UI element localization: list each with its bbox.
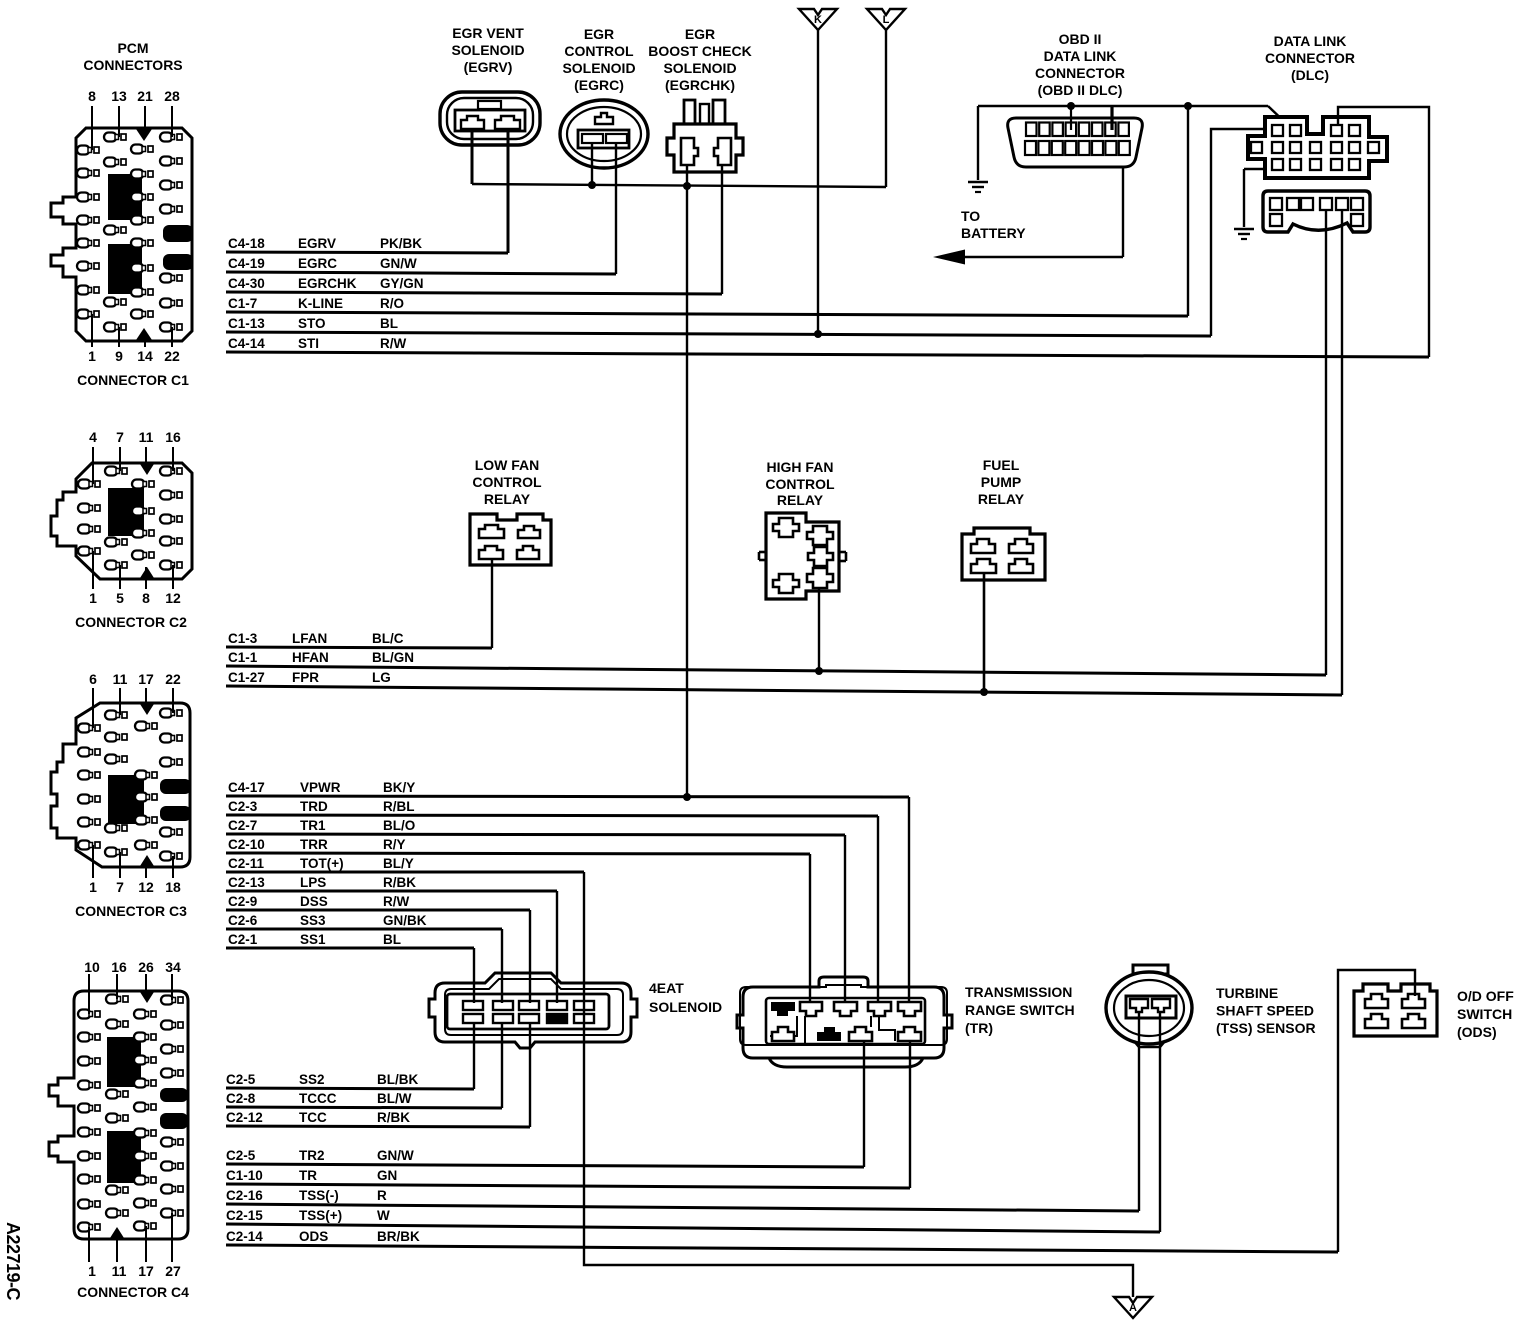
svg-text:BL/O: BL/O <box>383 818 415 833</box>
svg-text:1: 1 <box>88 1263 96 1279</box>
svg-text:GN/BK: GN/BK <box>383 913 427 928</box>
svg-text:STO: STO <box>298 316 326 331</box>
wire TR2 (C2-5) GN/W <box>226 1148 864 1167</box>
wire ODS to O/D switch <box>1338 970 1415 1252</box>
svg-text:W: W <box>377 1208 390 1223</box>
svg-text:(TSS) SENSOR: (TSS) SENSOR <box>1216 1020 1316 1036</box>
wire K-LINE riser <box>1187 106 1189 316</box>
wire HFAN from DLC pin <box>1325 210 1327 675</box>
wire DSS (C2-9) R/W <box>226 894 530 910</box>
junction K/STO <box>814 330 822 338</box>
PCM connectors heading <box>83 40 182 73</box>
svg-text:GN/W: GN/W <box>377 1148 414 1163</box>
solenoid EGRC connector <box>560 26 648 168</box>
svg-text:22: 22 <box>164 348 180 364</box>
svg-text:SOLENOID: SOLENOID <box>649 999 722 1015</box>
wire EGRC pin to C4-19 row <box>615 143 617 274</box>
wire TCCC (C2-8) BL/W <box>226 1091 502 1108</box>
wire VPWR (C4-17) BK/Y <box>226 780 909 797</box>
O/D off switch connector <box>1354 984 1514 1040</box>
svg-text:11: 11 <box>113 671 128 687</box>
svg-text:11: 11 <box>139 429 154 445</box>
svg-text:GY/GN: GY/GN <box>380 276 424 291</box>
wire EGRCHK pin to VPWR row (C4-17) <box>686 165 688 797</box>
junction EGRCHK/VPWR feed <box>683 182 691 190</box>
relay: fuel pump <box>962 457 1045 580</box>
svg-text:R/Y: R/Y <box>383 837 406 852</box>
svg-text:RELAY: RELAY <box>777 492 824 508</box>
svg-text:CONNECTOR C3: CONNECTOR C3 <box>75 903 187 919</box>
svg-text:14: 14 <box>137 348 153 364</box>
svg-text:PUMP: PUMP <box>981 474 1021 490</box>
svg-text:ODS: ODS <box>299 1229 328 1244</box>
wire TCC (C2-12) R/BK <box>226 1110 530 1127</box>
wire EGRCHK pin to C4-30 row <box>721 165 723 294</box>
wire SS3 (C2-6) GN/BK <box>226 913 502 929</box>
svg-text:12: 12 <box>138 879 154 895</box>
svg-text:C2-6: C2-6 <box>228 913 258 928</box>
relay: high fan control <box>759 459 846 599</box>
svg-text:C2-11: C2-11 <box>228 856 265 871</box>
wire EGRV (C4-18) PK/BK <box>226 236 508 253</box>
wire TRD riser to TR <box>877 816 879 1003</box>
svg-text:BL/GN: BL/GN <box>372 650 414 665</box>
PCM connector C1 <box>51 88 193 388</box>
wire SS1 (C2-1) BL <box>226 932 474 948</box>
svg-text:HIGH FAN: HIGH FAN <box>767 459 834 475</box>
svg-text:HFAN: HFAN <box>292 650 329 665</box>
wire TSS(+) (C2-15) W <box>226 1208 1160 1232</box>
svg-text:TR2: TR2 <box>299 1148 325 1163</box>
svg-text:34: 34 <box>165 959 181 975</box>
connector DLC upper <box>1248 33 1387 178</box>
PCM connector C4 <box>49 959 189 1300</box>
svg-text:BL/Y: BL/Y <box>383 856 414 871</box>
svg-text:SS1: SS1 <box>300 932 326 947</box>
svg-text:FPR: FPR <box>292 670 319 685</box>
svg-text:A: A <box>1129 1302 1137 1314</box>
svg-text:C2-9: C2-9 <box>228 894 257 909</box>
svg-text:C2-15: C2-15 <box>226 1208 263 1223</box>
svg-text:EGRV: EGRV <box>298 236 336 251</box>
svg-text:C2-10: C2-10 <box>228 837 265 852</box>
wire TR2 drop from TR <box>863 1041 865 1167</box>
svg-text:C2-1: C2-1 <box>228 932 258 947</box>
svg-text:CONNECTOR C2: CONNECTOR C2 <box>75 614 187 630</box>
svg-text:C1-1: C1-1 <box>228 650 258 665</box>
svg-text:(OBD II DLC): (OBD II DLC) <box>1038 82 1123 98</box>
wire TRR riser to TR <box>809 854 811 1003</box>
junction OBD II DLC pin feed <box>1067 102 1075 110</box>
wire FPR from DLC pin <box>1341 210 1343 695</box>
svg-text:BL/C: BL/C <box>372 631 404 646</box>
svg-text:13: 13 <box>111 88 127 104</box>
wire LPS (C2-13) R/BK <box>226 875 557 891</box>
svg-text:16: 16 <box>165 429 181 445</box>
svg-text:C2-13: C2-13 <box>228 875 265 890</box>
wire DSS riser <box>529 910 531 1003</box>
svg-text:STI: STI <box>298 336 319 351</box>
svg-text:TSS(-): TSS(-) <box>299 1188 339 1203</box>
wire TR drop from TR <box>909 1041 911 1188</box>
svg-text:EGRC: EGRC <box>298 256 337 271</box>
svg-text:CONTROL: CONTROL <box>472 474 542 490</box>
svg-text:LG: LG <box>372 670 391 685</box>
svg-text:21: 21 <box>137 88 153 104</box>
svg-text:EGR VENT: EGR VENT <box>452 25 524 41</box>
wire high fan relay to HFAN row (C1-1) <box>818 588 820 671</box>
svg-text:C4-30: C4-30 <box>228 276 265 291</box>
junction EGRC/VPWR feed <box>588 181 596 189</box>
wire STO riser to DLC <box>1211 129 1266 336</box>
junction EGRCHK feed / VPWR row <box>683 793 691 801</box>
svg-text:17: 17 <box>138 671 154 687</box>
wire K-LINE (C1-7) R/O <box>226 296 1188 316</box>
wire TR1 riser to TR <box>844 835 846 1003</box>
svg-text:TR: TR <box>299 1168 317 1183</box>
wire SS1 riser <box>473 948 475 1003</box>
wire LPS riser <box>556 891 558 1003</box>
svg-text:28: 28 <box>164 88 180 104</box>
svg-text:SS3: SS3 <box>300 913 326 928</box>
wire TCCC drop <box>501 1023 503 1108</box>
wire TSS(+) <box>1159 1012 1161 1232</box>
svg-text:TRANSMISSION: TRANSMISSION <box>965 984 1072 1000</box>
wire TSS(-) <box>1138 1012 1140 1211</box>
svg-text:RELAY: RELAY <box>978 491 1025 507</box>
svg-text:8: 8 <box>142 590 150 606</box>
PCM connector C3 <box>51 671 191 919</box>
figure number A22719-C <box>3 1222 23 1301</box>
wire TR (C1-10) GN <box>226 1168 910 1188</box>
svg-text:12: 12 <box>165 590 181 606</box>
svg-text:TOT(+): TOT(+) <box>300 856 344 871</box>
svg-text:BL: BL <box>383 932 401 947</box>
svg-text:CONTROL: CONTROL <box>564 43 634 59</box>
svg-text:C2-14: C2-14 <box>226 1229 263 1244</box>
svg-text:7: 7 <box>116 879 124 895</box>
svg-text:C4-14: C4-14 <box>228 336 265 351</box>
svg-text:BR/BK: BR/BK <box>377 1229 420 1244</box>
wire TCC drop <box>529 1023 531 1127</box>
svg-text:C1-7: C1-7 <box>228 296 257 311</box>
svg-text:RANGE SWITCH: RANGE SWITCH <box>965 1002 1075 1018</box>
svg-text:16: 16 <box>111 959 127 975</box>
VPWR feed wire to solenoids <box>472 184 886 187</box>
wire OBD II DLC feed line <box>978 105 1268 107</box>
svg-text:BL: BL <box>380 316 398 331</box>
svg-text:CONNECTOR C1: CONNECTOR C1 <box>77 372 189 388</box>
wire TSS(-) (C2-16) R <box>226 1188 1139 1211</box>
solenoid EGRV connector <box>440 25 540 145</box>
svg-text:A22719-C: A22719-C <box>3 1222 23 1301</box>
svg-text:CONNECTOR C4: CONNECTOR C4 <box>77 1284 189 1300</box>
wire EGRC (C4-19) GN/W <box>226 256 616 274</box>
PCM connector C2 <box>51 429 192 630</box>
svg-text:C2-5: C2-5 <box>226 1072 256 1087</box>
wire EGRV pin to VPWR feed <box>471 131 474 184</box>
svg-text:CONTROL: CONTROL <box>765 476 835 492</box>
svg-text:C2-16: C2-16 <box>226 1188 263 1203</box>
svg-text:RELAY: RELAY <box>484 491 531 507</box>
svg-text:4EAT: 4EAT <box>649 980 684 996</box>
svg-text:5: 5 <box>116 590 124 606</box>
svg-text:1: 1 <box>89 590 97 606</box>
svg-text:C4-18: C4-18 <box>228 236 265 251</box>
svg-text:R: R <box>377 1188 387 1203</box>
TO BATTERY arrow <box>933 167 1123 265</box>
svg-text:CONNECTORS: CONNECTORS <box>83 57 182 73</box>
svg-text:6: 6 <box>89 671 97 687</box>
svg-text:C4-19: C4-19 <box>228 256 265 271</box>
wire ODS (C2-14) BR/BK <box>226 1229 1338 1252</box>
svg-text:(ODS): (ODS) <box>1457 1024 1497 1040</box>
node L <box>867 9 905 30</box>
svg-text:C1-3: C1-3 <box>228 631 258 646</box>
svg-text:R/BK: R/BK <box>383 875 416 890</box>
connector OBD II DLC <box>1008 31 1143 167</box>
svg-text:OBD II: OBD II <box>1059 31 1102 47</box>
svg-text:TCC: TCC <box>299 1110 327 1125</box>
svg-text:GN: GN <box>377 1168 397 1183</box>
wire EGRC pin to VPWR feed <box>591 143 593 185</box>
svg-text:SOLENOID: SOLENOID <box>562 60 635 76</box>
ground at OBD II DLC <box>977 106 979 180</box>
wire TR1 (C2-7) BL/O <box>226 818 845 835</box>
wire LFAN (C1-3) BL/C <box>226 631 492 648</box>
connector DLC lower <box>1263 191 1370 232</box>
svg-text:9: 9 <box>115 348 123 364</box>
svg-text:DATA LINK: DATA LINK <box>1044 48 1117 64</box>
node K <box>799 9 837 30</box>
solenoid EGRCHK connector <box>648 26 751 172</box>
wire node L to VPWR feed <box>885 30 887 187</box>
4EAT solenoid connector <box>429 973 722 1048</box>
wire node K to STO row <box>817 30 819 334</box>
svg-text:TRR: TRR <box>300 837 328 852</box>
svg-text:18: 18 <box>165 879 181 895</box>
svg-text:TCCC: TCCC <box>299 1091 337 1106</box>
svg-text:R/O: R/O <box>380 296 404 311</box>
wire SS2 (C2-5) BL/BK <box>226 1072 474 1089</box>
svg-text:LFAN: LFAN <box>292 631 327 646</box>
svg-text:BL/BK: BL/BK <box>377 1072 418 1087</box>
junction high fan / HFAN <box>815 667 823 675</box>
svg-text:1: 1 <box>88 348 96 364</box>
svg-text:TR1: TR1 <box>300 818 326 833</box>
svg-text:8: 8 <box>88 88 96 104</box>
svg-text:27: 27 <box>165 1263 181 1279</box>
svg-text:(TR): (TR) <box>965 1020 993 1036</box>
svg-text:C1-27: C1-27 <box>228 670 265 685</box>
svg-text:SHAFT SPEED: SHAFT SPEED <box>1216 1003 1314 1019</box>
svg-text:22: 22 <box>165 671 181 687</box>
svg-text:L: L <box>883 14 890 26</box>
transmission range switch connector <box>737 977 1075 1067</box>
svg-text:SOLENOID: SOLENOID <box>663 60 736 76</box>
svg-text:C2-5: C2-5 <box>226 1148 256 1163</box>
svg-text:26: 26 <box>138 959 154 975</box>
svg-text:LPS: LPS <box>300 875 326 890</box>
svg-text:FUEL: FUEL <box>983 457 1020 473</box>
wire diagonal to DLC pin <box>1268 106 1291 128</box>
wire low fan relay to LFAN row (C1-3) <box>491 559 493 648</box>
wire STI (C4-14) R/W <box>226 336 1429 357</box>
svg-text:(EGRV): (EGRV) <box>464 59 513 75</box>
svg-text:C2-7: C2-7 <box>228 818 257 833</box>
relay: low fan control <box>470 457 551 565</box>
wire SS3 riser <box>501 929 503 1003</box>
ground at DLC <box>1244 168 1265 170</box>
svg-text:CONNECTOR: CONNECTOR <box>1035 65 1125 81</box>
svg-text:PCM: PCM <box>117 40 148 56</box>
wire HFAN (C1-1) BL/GN <box>226 650 1326 675</box>
svg-text:DATA LINK: DATA LINK <box>1274 33 1347 49</box>
wire EGRCHK (C4-30) GY/GN <box>226 276 722 294</box>
wire TOT(+) (C2-11) BL/Y <box>226 856 584 872</box>
wire TRR (C2-10) R/Y <box>226 837 810 854</box>
junction fuel pump / FPR <box>980 688 988 696</box>
svg-text:10: 10 <box>84 959 100 975</box>
svg-text:K-LINE: K-LINE <box>298 296 343 311</box>
svg-text:BK/Y: BK/Y <box>383 780 415 795</box>
svg-text:DSS: DSS <box>300 894 328 909</box>
svg-text:SS2: SS2 <box>299 1072 325 1087</box>
turbine shaft speed sensor connector <box>1106 965 1316 1047</box>
svg-text:TRD: TRD <box>300 799 328 814</box>
svg-text:C2-8: C2-8 <box>226 1091 256 1106</box>
wire VPWR riser to TR <box>908 797 910 1003</box>
wire TRD (C2-3) R/BL <box>226 799 878 816</box>
svg-text:GN/W: GN/W <box>380 256 417 271</box>
wire TOT(+) riser and A branch <box>584 872 1133 1297</box>
svg-text:CONNECTOR: CONNECTOR <box>1265 50 1355 66</box>
svg-text:C2-3: C2-3 <box>228 799 258 814</box>
svg-text:R/BK: R/BK <box>377 1110 410 1125</box>
svg-text:(EGRC): (EGRC) <box>574 77 624 93</box>
svg-text:C2-12: C2-12 <box>226 1110 263 1125</box>
svg-text:BATTERY: BATTERY <box>961 225 1026 241</box>
svg-text:BL/W: BL/W <box>377 1091 412 1106</box>
junction K-LINE / OBD feed <box>1184 102 1192 110</box>
node A <box>1114 1297 1152 1318</box>
svg-text:BOOST CHECK: BOOST CHECK <box>648 43 751 59</box>
svg-text:K: K <box>814 14 822 26</box>
svg-text:C1-10: C1-10 <box>226 1168 263 1183</box>
svg-text:SOLENOID: SOLENOID <box>451 42 524 58</box>
svg-text:C1-13: C1-13 <box>228 316 265 331</box>
svg-text:(EGRCHK): (EGRCHK) <box>665 77 735 93</box>
svg-text:R/BL: R/BL <box>383 799 415 814</box>
svg-text:TSS(+): TSS(+) <box>299 1208 342 1223</box>
svg-text:17: 17 <box>138 1263 154 1279</box>
wire FPR (C1-27) LG <box>226 670 1342 695</box>
svg-text:R/W: R/W <box>383 894 410 909</box>
svg-text:1: 1 <box>89 879 97 895</box>
svg-text:EGR: EGR <box>584 26 614 42</box>
wire SS2 drop <box>473 1023 475 1089</box>
svg-text:O/D OFF: O/D OFF <box>1457 988 1514 1004</box>
svg-text:4: 4 <box>89 429 97 445</box>
svg-text:11: 11 <box>112 1263 127 1279</box>
svg-text:TO: TO <box>961 208 980 224</box>
svg-text:EGRCHK: EGRCHK <box>298 276 357 291</box>
svg-text:TURBINE: TURBINE <box>1216 985 1278 1001</box>
svg-text:VPWR: VPWR <box>300 780 341 795</box>
svg-text:R/W: R/W <box>380 336 407 351</box>
svg-text:(DLC): (DLC) <box>1291 67 1329 83</box>
wire fuel pump relay to FPR row (C1-27) <box>983 573 986 692</box>
wire EGRV pin to C4-18 row <box>507 131 510 253</box>
svg-text:LOW FAN: LOW FAN <box>475 457 540 473</box>
svg-text:C4-17: C4-17 <box>228 780 265 795</box>
svg-text:PK/BK: PK/BK <box>380 236 422 251</box>
svg-text:SWITCH: SWITCH <box>1457 1006 1512 1022</box>
svg-text:EGR: EGR <box>685 26 715 42</box>
wire STO (C1-13) BL <box>226 316 1211 336</box>
svg-text:7: 7 <box>116 429 124 445</box>
wire STI riser to DLC <box>1338 107 1429 357</box>
